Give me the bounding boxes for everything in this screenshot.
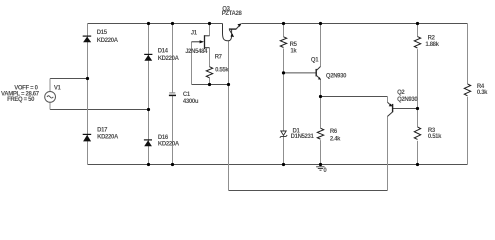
svg-text:Q2: Q2 [397, 90, 405, 96]
svg-text:KD220A: KD220A [158, 142, 180, 148]
svg-text:Q1: Q1 [311, 58, 319, 64]
svg-text:J2N5484: J2N5484 [185, 49, 208, 55]
svg-text:Q2N930: Q2N930 [326, 73, 347, 79]
svg-text:1.88k: 1.88k [425, 42, 439, 48]
svg-text:D16: D16 [158, 135, 169, 141]
svg-text:D1N5231: D1N5231 [291, 134, 315, 140]
svg-text:2.4k: 2.4k [330, 136, 341, 142]
svg-text:C1: C1 [183, 92, 191, 98]
svg-text:D14: D14 [158, 48, 169, 54]
svg-text:0.55k: 0.55k [215, 67, 229, 73]
svg-text:R2: R2 [428, 35, 436, 41]
svg-text:KD220A: KD220A [158, 56, 180, 62]
svg-text:KD220A: KD220A [97, 135, 119, 141]
svg-text:J1: J1 [191, 30, 198, 36]
svg-text:D15: D15 [97, 30, 108, 36]
svg-text:0.51k: 0.51k [428, 134, 442, 140]
svg-text:D17: D17 [97, 128, 108, 134]
svg-text:1k: 1k [290, 48, 297, 54]
svg-text:Q2N930: Q2N930 [397, 97, 418, 103]
svg-text:V1: V1 [54, 85, 62, 91]
svg-text:0: 0 [323, 168, 327, 174]
svg-text:0.3k: 0.3k [477, 90, 488, 96]
svg-text:FREQ = 50: FREQ = 50 [7, 97, 35, 103]
svg-text:R7: R7 [215, 54, 223, 60]
svg-text:R6: R6 [330, 129, 338, 135]
svg-text:R5: R5 [290, 42, 298, 48]
svg-text:4300u: 4300u [183, 99, 199, 105]
svg-text:PZTA28: PZTA28 [222, 11, 243, 17]
svg-text:KD220A: KD220A [97, 38, 119, 44]
